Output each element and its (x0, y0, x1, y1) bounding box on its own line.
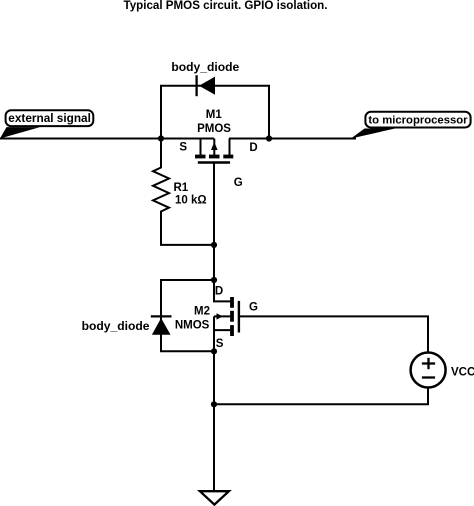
junction dot (left diode leg / resistor / main wire) (158, 135, 164, 141)
M2 channel bars (230, 297, 234, 308)
wire body-diode branch M1 (up and over) (161, 86, 269, 139)
svg-text:body_diode: body_diode (82, 319, 150, 333)
plus sign (422, 362, 435, 364)
svg-text:PMOS: PMOS (197, 123, 231, 135)
M2 drain lead (214, 280, 230, 301)
junction dot node D of M2 (211, 277, 217, 283)
svg-text:D: D (215, 286, 223, 298)
svg-text:10 kΩ: 10 kΩ (175, 195, 207, 207)
diode body_diode (M1), pointing left (171, 60, 239, 96)
M1 source leg (200, 139, 202, 156)
svg-text:S: S (179, 141, 187, 153)
M2 source lead (214, 330, 230, 351)
wire main-right (M1 drain to microprocessor) (229, 138, 356, 140)
wire junction to M2 drain (213, 245, 215, 280)
M2 gate plate (238, 301, 240, 333)
node to microprocessor flag (351, 112, 471, 139)
svg-text:M2: M2 (194, 306, 210, 318)
wire VCC bottom to ground rail (214, 388, 428, 405)
junction dot (ground rail) (211, 401, 217, 407)
svg-text:M1: M1 (206, 109, 223, 121)
svg-text:body_diode: body_diode (171, 60, 239, 74)
wire M1 gate lead down (213, 163, 215, 245)
ground (200, 491, 229, 504)
node external signal flag (0, 110, 93, 138)
svg-text:NMOS: NMOS (175, 320, 210, 332)
svg-text:D: D (249, 142, 257, 154)
junction dot (M2 source / body diode bottom) (211, 348, 217, 354)
voltage source VCC (411, 353, 474, 388)
transistor M1 PMOS (179, 109, 257, 189)
svg-text:G: G (234, 177, 243, 189)
wire M2 gate to VCC (239, 316, 428, 352)
wire source down to ground (213, 351, 215, 490)
svg-text:S: S (216, 338, 224, 350)
M2 body lead with arrow (214, 316, 230, 330)
wire body-diode branch M2 (left loop) (161, 280, 214, 351)
svg-text:VCC: VCC (451, 366, 474, 378)
svg-text:G: G (249, 302, 258, 314)
minus sign (422, 376, 435, 378)
transistor M2 NMOS (175, 280, 258, 351)
svg-text:external signal: external signal (8, 111, 91, 125)
svg-text:Typical PMOS circuit. GPIO iso: Typical PMOS circuit. GPIO isolation. (123, 0, 327, 12)
M1 body lead with arrow (213, 139, 215, 156)
svg-text:to microprocessor: to microprocessor (368, 114, 468, 126)
M1 drain leg (229, 139, 231, 156)
svg-text:R1: R1 (174, 182, 189, 194)
junction dot (gate/resistor junction) (211, 242, 217, 248)
junction dot (right diode leg / main wire) (266, 135, 272, 141)
wire main-left (external signal to M1 source/body) (0, 138, 214, 140)
M1 channel bars (195, 155, 206, 159)
resistor R1 (153, 139, 214, 245)
M1 gate plate (198, 161, 230, 163)
diode body_diode (M2), pointing up (82, 316, 172, 334)
